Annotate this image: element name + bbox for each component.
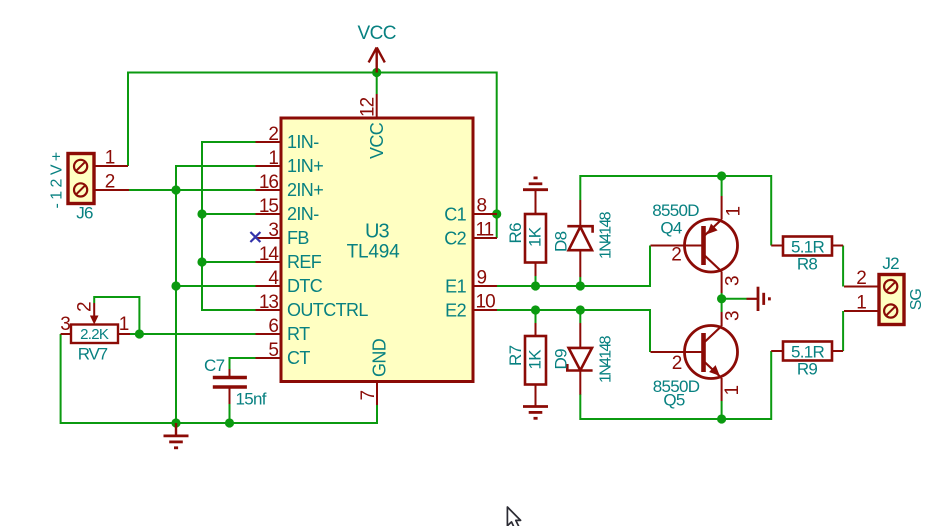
U3 pin 8 C1 [444,196,497,225]
wire VCC junction down to pin 12 [376,73,378,95]
J6 pin 1 [94,148,128,169]
junction 2IN+ net [171,185,180,194]
svg-text:15nf: 15nf [236,390,267,409]
svg-text:1: 1 [105,148,115,169]
svg-text:R7: R7 [506,345,525,366]
svg-text:2: 2 [672,353,682,374]
junction 2IN- net [197,209,206,218]
svg-text:2: 2 [105,172,115,193]
svg-text:REF: REF [287,252,322,272]
diode D9 1N4148 [552,323,615,395]
Q4 pin 2 base number [671,245,681,266]
U3 pin 13 OUTCTRL [256,292,369,320]
svg-text:R8: R8 [797,255,818,274]
Q5 pin 3 emitter number [723,311,744,321]
svg-text:J6: J6 [76,204,93,223]
svg-text:5: 5 [268,340,278,361]
diode D8 1N4148 [552,200,615,286]
svg-text:SG: SG [908,289,925,311]
svg-text:RV7: RV7 [78,345,108,364]
svg-text:GND: GND [370,338,390,377]
svg-text:8550D: 8550D [652,201,699,220]
wire R8 to J2 pin2 riser [842,246,844,287]
svg-text:1: 1 [724,207,745,217]
wire 1IN- to OUTCTRL via vertical B [202,142,256,310]
svg-text:16: 16 [259,172,279,193]
wire R7 top stub [535,310,537,323]
junction REF net [197,257,206,266]
wire D9 bottom and lower rail to R9 [580,351,771,419]
wire R9 to J2 pin1 riser [842,311,844,351]
junction ground rail at vertical A [171,418,180,427]
svg-text:1K: 1K [526,226,545,247]
svg-text:13: 13 [259,292,279,313]
junction DTC net [171,281,180,290]
svg-text:3: 3 [268,220,278,241]
svg-text:E2: E2 [445,301,466,321]
U3 pin 9 E1 [445,268,497,297]
svg-text:3: 3 [723,311,744,321]
svg-text:2IN+: 2IN+ [287,180,323,200]
wire J6 pin2 to 2IN+ [129,189,256,191]
wire C1 to C2 tie [496,214,498,238]
svg-text:FB: FB [287,228,309,248]
svg-text:CT: CT [287,348,310,368]
svg-text:1: 1 [856,293,866,314]
junction lower rail at Q5 collector [717,414,726,423]
U3 pin 1 1IN+ [256,148,324,176]
svg-text:15: 15 [259,196,279,217]
svg-text:-12V+: -12V+ [49,148,66,208]
wire 2IN- stub to vertical B [202,213,256,215]
wire D9 top stub [579,310,581,323]
capacitor C7 15nf [204,356,267,409]
J2 pin 1 [844,293,879,314]
svg-text:1N4148: 1N4148 [598,211,615,259]
RV7 pin 2 wiper number [75,302,96,312]
U3 pin 6 RT [256,316,311,344]
svg-text:1N4148: 1N4148 [598,335,615,383]
U3 pin 16 2IN+ [256,172,324,200]
U3 pin 7 GND bottom [358,338,390,405]
wire E2 to Q5 base [497,310,650,352]
svg-text:8: 8 [477,196,487,217]
wire C7 bottom to ground rail [229,404,231,423]
svg-text:E1: E1 [445,277,466,297]
svg-text:11: 11 [476,220,494,241]
Q4 pin 1 emitter number [724,207,745,217]
connector J2 [879,254,925,325]
U3 pin 10 E2 [445,292,497,321]
wire emitter node to ground symbol [722,298,747,300]
wire VCC top rail from J6 pin1 riser to C1 riser [128,73,497,215]
wire DTC stub to vertical A [176,285,256,287]
ground above R6 [523,178,548,190]
svg-text:Q5: Q5 [663,391,685,410]
svg-text:U3: U3 [365,221,389,243]
power VCC symbol [358,23,396,73]
svg-text:TL494: TL494 [347,242,401,263]
J6 pin 2 [94,172,129,193]
U3 pin 14 REF [256,244,322,272]
svg-text:RT: RT [287,324,310,344]
svg-text:R9: R9 [797,360,818,379]
wire Q5 collector drop [721,401,723,419]
RV7 pin 3 [60,314,71,335]
U3 pin 5 CT [256,340,311,368]
transistor Q5 8550D [651,312,738,410]
no-connect X on FB pin [250,232,260,242]
wire 1IN+ down to net at vertical A [176,166,256,423]
junction E2 at D9 [576,305,585,314]
wire Q4 collector to Q5 emitter node [721,293,723,312]
junction Q4-Q5 emitter node [717,294,726,303]
potentiometer RV7 2.2K [71,303,118,364]
svg-text:DTC: DTC [287,276,323,296]
RV7 pin 1 [118,314,130,335]
svg-text:1K: 1K [526,349,545,370]
U3 pin 15 2IN- [256,196,320,224]
svg-text:2.2K: 2.2K [80,326,109,343]
svg-text:D8: D8 [552,231,571,252]
svg-text:9: 9 [477,268,487,289]
junction E1 at D8 [576,281,585,290]
transistor Q4 8550D [651,196,738,293]
svg-text:1IN+: 1IN+ [287,156,323,176]
op-amp U3 TL494 IC body [281,118,473,382]
svg-text:C2: C2 [444,229,466,249]
svg-text:J2: J2 [882,254,899,273]
U3 pin 12 VCC top [358,94,388,159]
ground at emitter node (rotated) [747,287,770,311]
svg-text:4: 4 [268,268,279,289]
junction ground rail at C7 [225,418,234,427]
U3 pin 3 FB [256,220,310,248]
wire R6 bottom stub [535,276,537,286]
ground at bottom rail [164,423,189,448]
U3 pin 4 DTC [256,268,323,296]
svg-text:3: 3 [60,314,70,335]
resistor R7 1K [506,323,546,407]
junction E1 at R6 [531,281,540,290]
svg-text:2: 2 [75,302,96,312]
svg-text:VCC: VCC [367,122,387,159]
U3 pin 11 C2 [444,220,497,249]
wire D8 top and VCC2 rail to R8 [580,176,771,246]
junction E2 at R7 [531,305,540,314]
Q5 pin 2 base number [672,353,682,374]
svg-text:D9: D9 [552,349,571,370]
connector J6 [49,148,95,222]
svg-text:7: 7 [358,391,379,401]
U3 pin 2 1IN- [256,124,320,152]
wire RV7 pin3 down and bottom ground rail [61,334,377,423]
junction VCC rail [372,68,381,77]
svg-text:3: 3 [723,276,744,286]
svg-text:R6: R6 [506,223,525,244]
svg-text:10: 10 [476,292,496,313]
svg-text:14: 14 [259,244,280,265]
resistor R6 1K [506,190,546,276]
mouse cursor [507,507,520,526]
svg-text:2: 2 [671,245,681,266]
svg-text:VCC: VCC [358,23,396,44]
wire Q4 emitter riser [721,176,723,196]
svg-text:1: 1 [268,148,278,169]
svg-text:OUTCTRL: OUTCTRL [287,300,368,320]
resistor R9 5.1R [771,342,843,379]
resistor R8 5.1R [771,237,843,274]
wire REF stub to vertical B [202,261,256,263]
svg-text:12: 12 [358,97,379,117]
junction RV7 wiper-RT [135,329,144,338]
junction C1 pin8 [492,209,501,218]
svg-text:1IN-: 1IN- [287,132,319,152]
junction VCC2 rail at Q4 emitter [717,171,726,180]
Q5 pin 1 collector number [722,386,743,396]
J2 pin 2 [844,268,879,289]
svg-text:2: 2 [268,124,278,145]
svg-text:6: 6 [268,316,278,337]
ground below R7 [523,407,548,419]
svg-text:2: 2 [856,268,866,289]
svg-text:2IN-: 2IN- [287,204,319,224]
svg-text:C7: C7 [204,356,225,375]
svg-text:C1: C1 [444,205,466,225]
wire CT to C7 top [230,358,257,369]
svg-text:1: 1 [722,386,743,396]
wire RV7 wiper loop [94,297,139,334]
Q4 pin 3 collector number [723,276,744,286]
wire E1 to Q4 base [497,246,650,287]
svg-text:Q4: Q4 [660,219,682,238]
svg-text:1: 1 [119,314,129,335]
wire RT to RV7 wiper node [130,333,256,335]
